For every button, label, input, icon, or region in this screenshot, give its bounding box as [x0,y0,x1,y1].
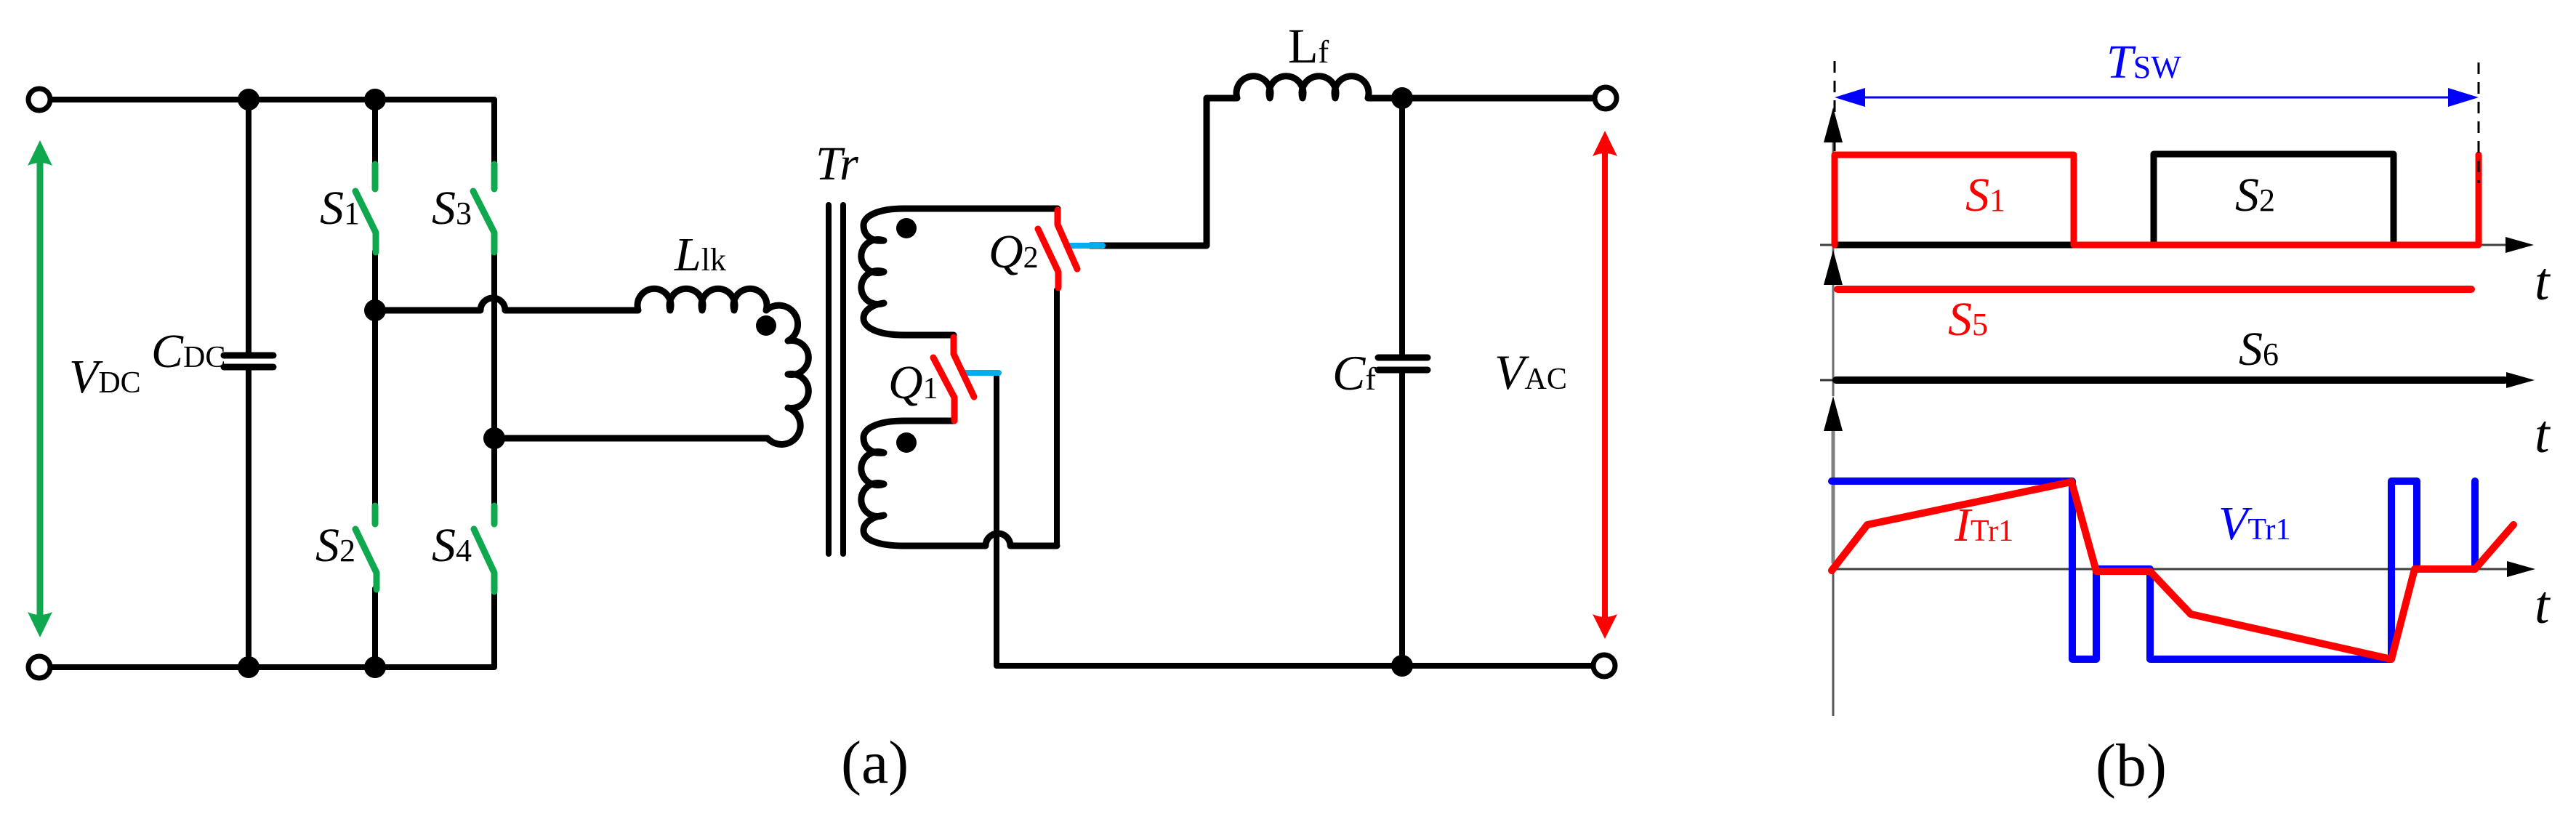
svg-text:t: t [2535,252,2551,312]
svg-text:(b): (b) [2096,732,2167,799]
svg-text:t: t [2535,576,2551,635]
svg-text:t: t [2535,405,2551,464]
svg-text:Tr: Tr [816,137,858,190]
svg-text:(a): (a) [841,729,909,797]
